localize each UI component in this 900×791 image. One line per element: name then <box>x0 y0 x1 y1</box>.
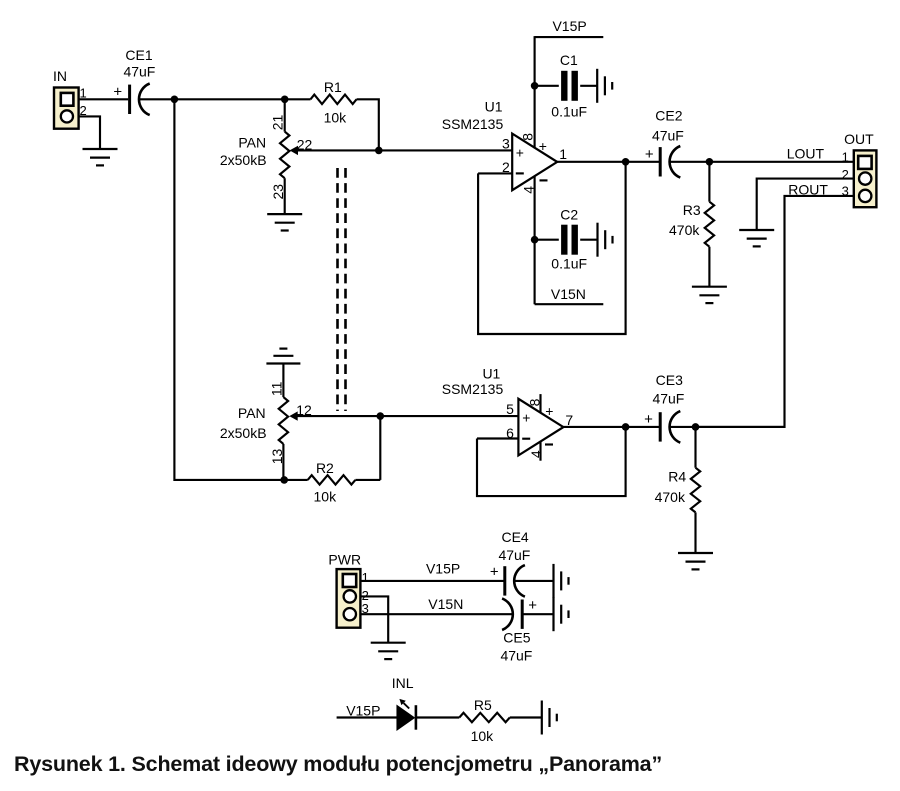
wire LED to R5 <box>417 716 460 718</box>
ground (C2) <box>596 223 598 257</box>
wire CE3 to ROUT node <box>670 426 785 428</box>
svg-text:11: 11 <box>268 381 284 396</box>
svg-text:2x50kB: 2x50kB <box>220 152 267 168</box>
svg-text:47uF: 47uF <box>123 64 155 80</box>
wire op-amp2 pin 6 input <box>477 437 518 439</box>
V15P power rail (op-amp1) <box>535 36 604 38</box>
junction node A <box>171 96 179 104</box>
svg-text:+: + <box>490 564 499 581</box>
capacitor CE2 47uF (electrolytic) <box>659 147 662 176</box>
wire PWR pin3 (V15N) to CE5 <box>360 613 513 615</box>
svg-text:PWR: PWR <box>328 551 361 567</box>
wire V15P to LED <box>337 716 398 718</box>
op-amp U1 SSM2135 (section B) <box>518 399 563 456</box>
wire op-amp1 pin8 to V15P rail <box>534 36 536 148</box>
svg-text:SSM2135: SSM2135 <box>442 116 504 132</box>
wire op-amp1 output to CE2 <box>557 161 660 163</box>
svg-text:1: 1 <box>362 570 369 585</box>
wire wiper 12 to node C <box>295 415 380 417</box>
wire CE4 to ground <box>514 580 553 582</box>
svg-text:470k: 470k <box>669 222 700 238</box>
svg-text:+: + <box>644 411 653 428</box>
wire CE5 to ground <box>522 613 553 615</box>
wire OUT pin2 to ground <box>757 179 854 230</box>
svg-text:47uF: 47uF <box>652 390 684 406</box>
junction pin4/C2 <box>531 236 539 244</box>
svg-text:0.1uF: 0.1uF <box>551 256 587 272</box>
svg-text:+: + <box>539 138 547 154</box>
V15N power rail (op-amp1) <box>535 303 604 305</box>
svg-text:R3: R3 <box>683 202 701 218</box>
wire IN pin1 to CE1 <box>79 98 129 100</box>
wire op-amp2 pin4 power stub <box>539 442 541 461</box>
svg-text:+: + <box>516 144 524 160</box>
svg-text:R5: R5 <box>474 697 492 713</box>
junction pot1 top node <box>281 96 289 104</box>
svg-text:23: 23 <box>270 184 286 200</box>
svg-text:5: 5 <box>506 401 514 417</box>
junction R3 node <box>706 158 714 166</box>
svg-text:LOUT: LOUT <box>787 145 825 161</box>
connector OUT (3-pin header) <box>854 150 877 207</box>
svg-text:+: + <box>528 597 537 614</box>
feedback wire op-amp1 (pin2 to output) <box>478 162 625 334</box>
svg-text:R4: R4 <box>668 469 686 485</box>
svg-text:2x50kB: 2x50kB <box>220 425 267 441</box>
junction pin8/C1 <box>531 82 539 90</box>
ground (PWR pin 2) <box>371 642 406 644</box>
svg-text:13: 13 <box>269 449 285 465</box>
ground (R4) <box>678 552 713 554</box>
ground (CE4) <box>552 564 554 598</box>
svg-text:8: 8 <box>520 133 536 141</box>
svg-text:V15N: V15N <box>428 596 463 612</box>
svg-text:3: 3 <box>502 136 510 152</box>
wire op-amp2 output to CE3 <box>563 426 660 428</box>
junction pot2 bottom node <box>280 476 288 484</box>
wire wiper 22 to node B <box>295 149 379 151</box>
wire node C to op-amp pin 5 <box>380 415 518 417</box>
svg-text:+: + <box>545 403 553 419</box>
svg-text:CE5: CE5 <box>503 630 530 646</box>
svg-text:Rysunek 1. Schemat ideowy modu: Rysunek 1. Schemat ideowy modułu potencj… <box>14 752 662 776</box>
svg-text:21: 21 <box>270 115 286 131</box>
svg-text:U1: U1 <box>485 99 503 115</box>
svg-text:V15P: V15P <box>552 18 586 34</box>
ganged-pot coupling dashed line left <box>336 168 339 411</box>
svg-text:R2: R2 <box>316 460 334 476</box>
svg-text:R1: R1 <box>324 79 342 95</box>
connector PWR (3-pin header) <box>337 569 361 628</box>
feedback wire op-amp2 (pin6 to output) <box>477 427 626 496</box>
junction node C <box>377 412 385 420</box>
wire op-amp2 pin8 power stub <box>539 394 541 413</box>
svg-text:C2: C2 <box>560 207 578 223</box>
op-amp U1 SSM2135 (section A) <box>512 134 557 191</box>
svg-text:+: + <box>645 146 654 163</box>
svg-text:7: 7 <box>565 412 573 428</box>
svg-text:OUT: OUT <box>844 131 874 147</box>
svg-text:CE3: CE3 <box>656 372 683 388</box>
capacitor CE4 47uF (electrolytic) <box>503 566 506 595</box>
ground (R3) <box>692 286 727 288</box>
junction R1/wiper node B <box>375 147 383 155</box>
connector IN (2-pin header) <box>54 88 79 129</box>
wire node C down to R2 <box>379 416 381 480</box>
svg-text:PAN: PAN <box>238 405 266 421</box>
potentiometer PAN 2x50kB (lower section, pins 11/12/13) <box>282 364 284 398</box>
wire op-amp1 pin4 to V15N rail <box>534 176 536 305</box>
svg-text:+: + <box>522 410 530 426</box>
capacitor CE5 47uF (electrolytic, reversed) <box>521 600 524 629</box>
resistor R5 10k <box>459 713 510 722</box>
svg-text:V15P: V15P <box>346 703 380 719</box>
wire R5 to ground <box>510 716 542 718</box>
ganged-pot coupling dashed line right <box>344 168 347 411</box>
svg-text:C1: C1 <box>560 52 578 68</box>
svg-text:1: 1 <box>559 146 567 162</box>
resistor R4 470k <box>694 427 696 468</box>
wire node A down-left rail <box>174 99 284 480</box>
svg-text:0.1uF: 0.1uF <box>551 104 587 120</box>
svg-text:V15P: V15P <box>426 560 460 576</box>
wire op-amp1 pin 2 input <box>478 172 512 174</box>
svg-text:10k: 10k <box>314 489 338 505</box>
capacitor CE1 47uF (electrolytic) <box>128 85 131 114</box>
svg-text:10k: 10k <box>324 110 348 126</box>
ground (C1) <box>596 69 598 103</box>
wire node B to op-amp pin 3 <box>379 149 512 151</box>
svg-text:ROUT: ROUT <box>788 182 828 198</box>
svg-text:CE4: CE4 <box>501 529 528 545</box>
resistor R1 10k <box>285 98 311 100</box>
svg-text:+: + <box>113 83 122 100</box>
ground (R5) <box>541 701 543 735</box>
ground (CE5) <box>552 597 554 631</box>
wire CE2 to OUT pin1 (LOUT) <box>670 161 855 163</box>
ground (pot2 pin 11, flipped) <box>266 362 300 364</box>
capacitor CE3 47uF (electrolytic) <box>659 412 662 441</box>
wire IN pin2 to ground <box>79 116 100 149</box>
junction feedback/output1 <box>622 158 630 166</box>
wire OUT pin3 (ROUT) down to channel R <box>695 196 855 427</box>
svg-text:47uF: 47uF <box>652 128 684 144</box>
svg-text:10k: 10k <box>471 728 495 744</box>
svg-text:47uF: 47uF <box>498 547 530 563</box>
resistor R3 470k <box>708 162 710 202</box>
svg-text:V15N: V15N <box>551 286 586 302</box>
potentiometer PAN 2x50kB (upper section, pins 21/22/23) <box>284 98 286 132</box>
wire CE1 to node A <box>139 98 175 100</box>
svg-text:U1: U1 <box>482 366 500 382</box>
svg-text:PAN: PAN <box>238 135 266 151</box>
svg-text:47uF: 47uF <box>500 647 532 663</box>
svg-text:SSM2135: SSM2135 <box>442 381 504 397</box>
wire node A to pot PAN top <box>174 98 285 100</box>
svg-text:CE1: CE1 <box>125 47 152 63</box>
svg-text:1: 1 <box>842 149 849 164</box>
ground (IN pin 2) <box>83 148 118 150</box>
capacitor C1 0.1uF <box>535 85 559 87</box>
svg-text:CE2: CE2 <box>655 108 682 124</box>
junction feedback/output2 <box>622 423 630 431</box>
resistor R2 10k <box>284 479 308 481</box>
wire PWR pin2 to ground <box>360 596 388 642</box>
LED INL <box>397 706 414 730</box>
svg-text:INL: INL <box>392 675 414 691</box>
capacitor C2 0.1uF <box>535 239 559 241</box>
junction R4 node <box>692 423 700 431</box>
ground (OUT pin 2) <box>739 229 774 231</box>
wire PWR pin1 (V15P) to CE4 <box>360 580 504 582</box>
svg-text:470k: 470k <box>655 489 686 505</box>
ground (pot1 pin 23) <box>267 213 302 215</box>
svg-text:IN: IN <box>53 68 67 84</box>
